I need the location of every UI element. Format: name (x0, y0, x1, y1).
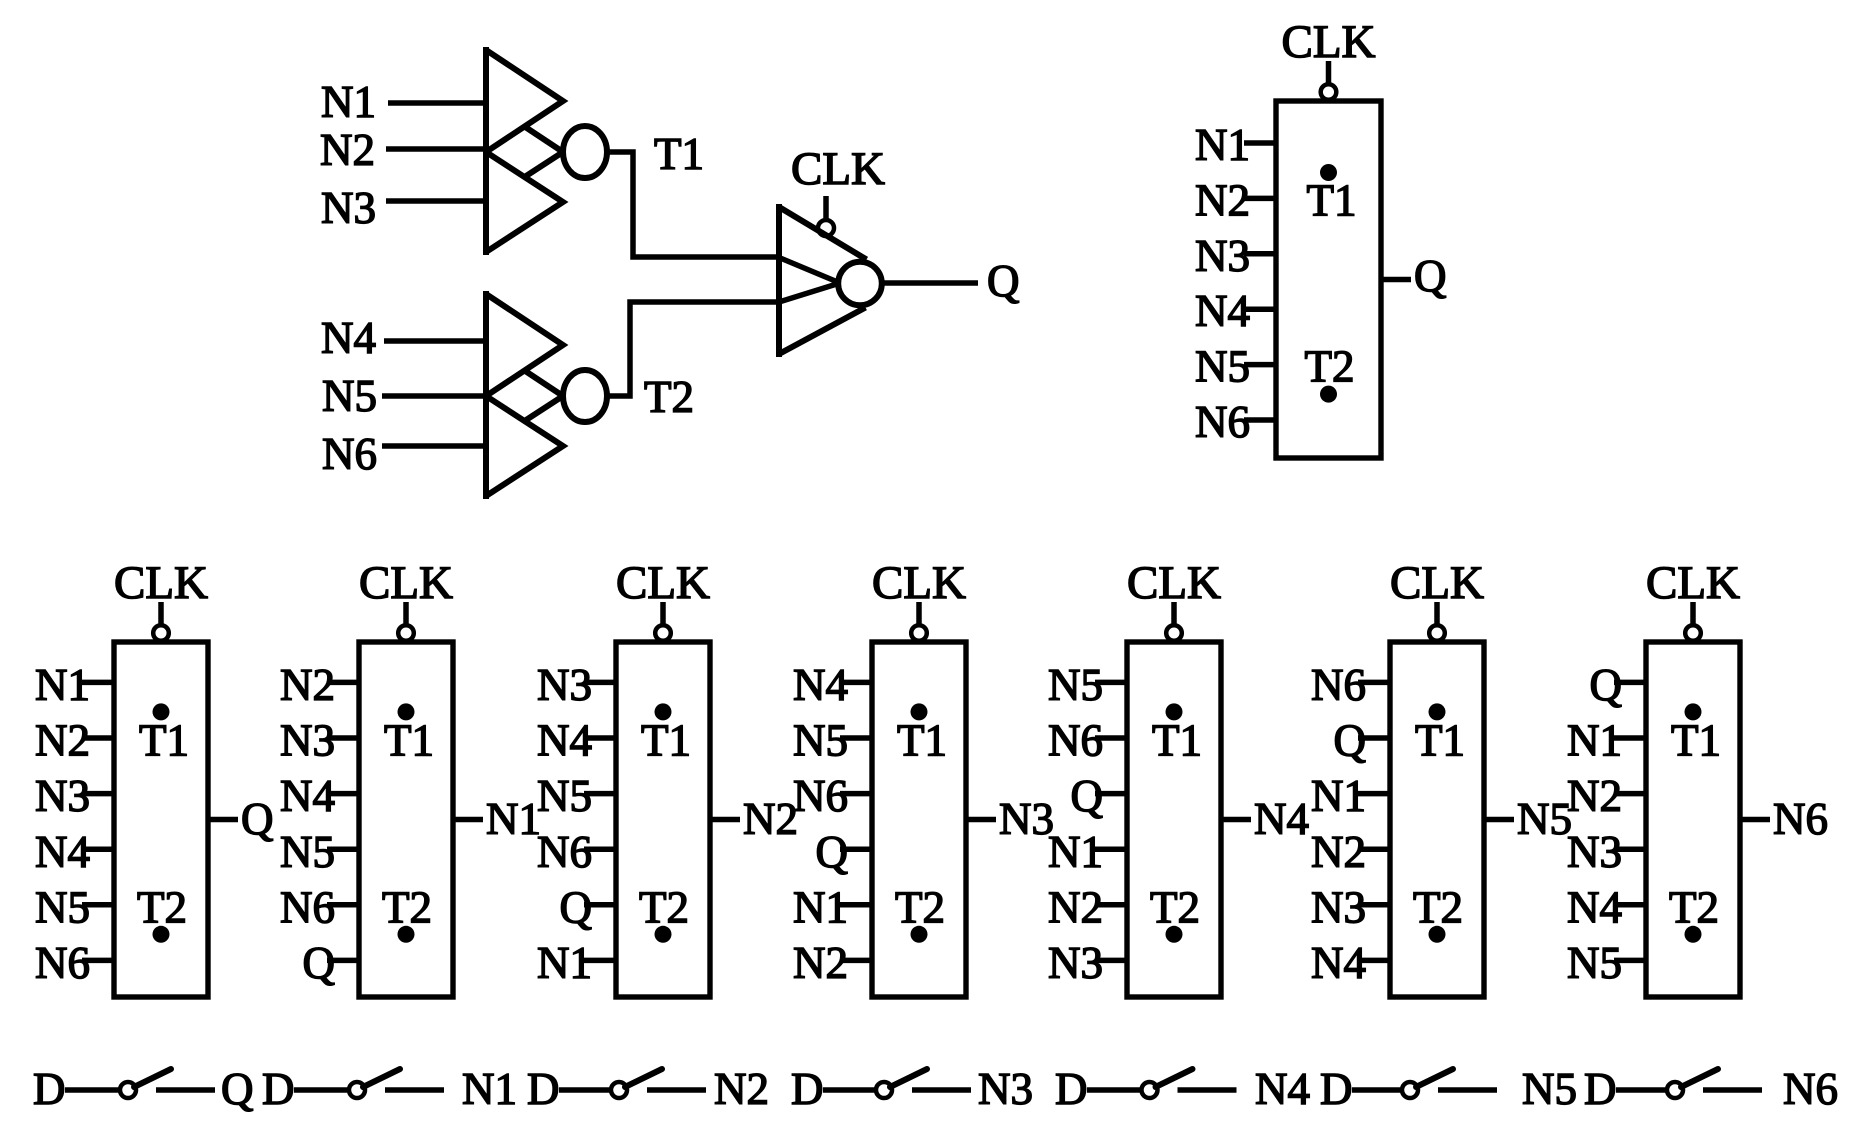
pin N1 of U4 (537, 938, 616, 988)
svg-text:T2: T2 (644, 372, 694, 422)
pin N4 of U3 (280, 771, 359, 821)
pin N2 of U8 (1567, 771, 1646, 821)
svg-text:T1: T1 (1671, 716, 1721, 766)
pin N6 of U6 (1048, 716, 1127, 766)
svg-text:N3: N3 (1195, 231, 1250, 281)
pin N1 of U1 (1195, 120, 1276, 170)
wire switch S7 to N6 (1703, 1087, 1762, 1093)
svg-text:CLK: CLK (1127, 557, 1221, 609)
label CLK (U7) (1390, 557, 1484, 609)
clock bubble U3 (818, 220, 834, 236)
label T1 (U4) (641, 716, 691, 766)
wire CLK stem U2 (158, 602, 164, 625)
label CLK (U8) (1646, 557, 1740, 609)
wire D to switch S2 (294, 1087, 349, 1093)
wire switch S1 to Q (156, 1087, 215, 1093)
label T1 (654, 129, 704, 179)
svg-text:N3: N3 (321, 183, 376, 233)
svg-text:T2: T2 (1305, 342, 1355, 392)
clock bubble U2 (153, 625, 169, 641)
wire D to switch S7 (1616, 1087, 1667, 1093)
svg-text:D: D (1584, 1064, 1617, 1114)
svg-text:N3: N3 (1048, 938, 1103, 988)
svg-text:N4: N4 (1254, 794, 1309, 844)
svg-text:N2: N2 (320, 125, 375, 175)
svg-text:D: D (1320, 1064, 1353, 1114)
block U7 body (1390, 642, 1484, 997)
block U1 body (1276, 101, 1381, 458)
svg-text:N1: N1 (321, 77, 376, 127)
label CLK (U6) (1127, 557, 1221, 609)
pin N1 of U7 (1311, 771, 1390, 821)
svg-text:N6: N6 (1783, 1064, 1838, 1114)
svg-text:D: D (527, 1064, 560, 1114)
pin N2 output of U4 (710, 794, 798, 844)
label CLK (U2) (114, 557, 208, 609)
svg-text:N5: N5 (793, 716, 848, 766)
svg-text:T1: T1 (139, 716, 189, 766)
svg-text:CLK: CLK (114, 557, 208, 609)
block U3 body (359, 642, 453, 997)
svg-text:N6: N6 (322, 429, 377, 479)
svg-text:D: D (33, 1064, 66, 1114)
svg-text:N4: N4 (537, 716, 592, 766)
label N6 (322, 429, 377, 479)
label N2 (switch S3 output) (714, 1064, 769, 1114)
svg-text:N5: N5 (322, 371, 377, 421)
node T2 dot (U4) (655, 926, 672, 943)
block U6 body (1127, 642, 1221, 997)
minority gate G1 (inputs N1,N2,N3) (486, 50, 607, 252)
svg-text:N1: N1 (462, 1064, 517, 1114)
clocked inverter U3 (T1,T2 -> Q) (779, 207, 882, 354)
pin N5 of U2 (35, 882, 114, 932)
pin N3 of U7 (1311, 882, 1390, 932)
svg-text:N2: N2 (793, 938, 848, 988)
label T2 (644, 372, 694, 422)
wire N1 input (388, 100, 486, 106)
pin Q of U5 (816, 827, 873, 877)
svg-text:N5: N5 (1567, 938, 1622, 988)
svg-text:T1: T1 (1415, 716, 1465, 766)
clock bubble U5 (911, 625, 927, 641)
label N2 (320, 125, 375, 175)
pin Q output of U2 (208, 794, 274, 844)
svg-text:T2: T2 (137, 882, 187, 932)
svg-text:CLK: CLK (1282, 16, 1376, 68)
svg-text:N3: N3 (1567, 827, 1622, 877)
svg-text:N4: N4 (793, 660, 848, 710)
pin N3 of U1 (1195, 231, 1276, 281)
svg-text:T2: T2 (1413, 882, 1463, 932)
node T1 dot (U2) (153, 703, 170, 720)
label CLK (U1) (1282, 16, 1376, 68)
wire CLK stem U3 (403, 602, 409, 625)
svg-text:N5: N5 (537, 771, 592, 821)
svg-text:N6: N6 (35, 938, 90, 988)
pin N4 of U1 (1195, 286, 1276, 336)
pin N3 of U6 (1048, 938, 1127, 988)
svg-text:D: D (1055, 1064, 1088, 1114)
node T2 dot (U3) (398, 926, 415, 943)
node T1 dot (U3) (398, 703, 415, 720)
clock bubble U7 (1429, 625, 1445, 641)
svg-text:N3: N3 (35, 771, 90, 821)
pin N3 of U2 (35, 771, 114, 821)
pin N5 of U5 (793, 716, 872, 766)
label T2 (U1) (1305, 342, 1355, 392)
svg-text:N4: N4 (1195, 286, 1250, 336)
svg-text:N2: N2 (1311, 827, 1366, 877)
pin N3 of U3 (280, 716, 359, 766)
pin N5 output of U7 (1484, 794, 1572, 844)
label D (switch S5) (1055, 1064, 1088, 1114)
wire D to switch S3 (559, 1087, 611, 1093)
wire N5 input (382, 393, 486, 399)
wire N6 input (382, 443, 486, 449)
svg-text:T2: T2 (895, 882, 945, 932)
svg-text:Q: Q (987, 256, 1020, 306)
svg-text:N1: N1 (1567, 716, 1622, 766)
pin N4 of U2 (35, 827, 114, 877)
pin Q of U7 (1334, 716, 1391, 766)
switch S3 (611, 1069, 662, 1098)
pin N5 of U6 (1048, 660, 1127, 710)
label N1 (switch S2 output) (462, 1064, 517, 1114)
pin N4 of U5 (793, 660, 872, 710)
label T2 (U3) (382, 882, 432, 932)
svg-text:T2: T2 (1669, 882, 1719, 932)
pin N6 of U5 (793, 771, 872, 821)
label T2 (U8) (1669, 882, 1719, 932)
svg-text:N5: N5 (1195, 342, 1250, 392)
clock bubble U1 (1321, 84, 1337, 100)
pin N1 of U5 (793, 882, 872, 932)
label Q output (987, 256, 1020, 306)
node T2 dot (U2) (153, 926, 170, 943)
switch S6 (1402, 1069, 1453, 1098)
clock bubble U3 (398, 625, 414, 641)
svg-text:N4: N4 (280, 771, 335, 821)
svg-text:N3: N3 (1311, 882, 1366, 932)
label CLK (U5) (872, 557, 966, 609)
svg-text:N5: N5 (1522, 1064, 1577, 1114)
switch S4 (876, 1069, 927, 1098)
svg-text:N3: N3 (280, 716, 335, 766)
svg-text:CLK: CLK (616, 557, 710, 609)
minority gate G2 (inputs N4,N5,N6) (486, 294, 607, 496)
svg-text:T2: T2 (382, 882, 432, 932)
pin N5 of U4 (537, 771, 616, 821)
label T1 (U3) (384, 716, 434, 766)
svg-text:N1: N1 (1195, 120, 1250, 170)
pin N2 of U2 (35, 716, 114, 766)
svg-text:N4: N4 (321, 313, 376, 363)
label N3 (321, 183, 376, 233)
wire CLK stem U7 (1434, 602, 1440, 625)
clock bubble U4 (655, 625, 671, 641)
block U4 body (616, 642, 710, 997)
svg-text:T1: T1 (641, 716, 691, 766)
node T2 dot (U1) (1320, 386, 1337, 403)
wire CLK stem U5 (916, 602, 922, 625)
label T1 (U7) (1415, 716, 1465, 766)
svg-text:T1: T1 (1152, 716, 1202, 766)
svg-text:N2: N2 (280, 660, 335, 710)
svg-text:CLK: CLK (1646, 557, 1740, 609)
block U2 body (114, 642, 208, 997)
label T2 (U6) (1150, 882, 1200, 932)
node T1 dot (U6) (1166, 703, 1183, 720)
wire switch S3 to N2 (647, 1087, 706, 1093)
label T2 (U5) (895, 882, 945, 932)
switch S7 (1667, 1069, 1718, 1098)
pin N6 output of U8 (1740, 794, 1828, 844)
wire T1 net (607, 152, 779, 257)
wire switch S6 to N5 (1438, 1087, 1497, 1093)
label T1 (U5) (897, 716, 947, 766)
wire switch S4 to N3 (912, 1087, 971, 1093)
svg-text:N3: N3 (537, 660, 592, 710)
wire switch S2 to N1 (385, 1087, 444, 1093)
label T1 (U2) (139, 716, 189, 766)
clock bubble U6 (1166, 625, 1182, 641)
block U8 body (1646, 642, 1740, 997)
pin N6 of U4 (537, 827, 616, 877)
pin N2 of U1 (1195, 175, 1276, 225)
wire N3 input (386, 198, 486, 204)
svg-text:N2: N2 (35, 716, 90, 766)
svg-text:T1: T1 (654, 129, 704, 179)
wire CLK stem U6 (1171, 602, 1177, 625)
label T2 (U4) (639, 882, 689, 932)
svg-text:CLK: CLK (872, 557, 966, 609)
label CLK (U4) (616, 557, 710, 609)
svg-text:N1: N1 (1311, 771, 1366, 821)
svg-text:CLK: CLK (359, 557, 453, 609)
wire CLK stem U4 (660, 602, 666, 625)
pin Q of U8 (1590, 660, 1647, 710)
svg-text:Q: Q (221, 1064, 254, 1114)
label T1 (U1) (1307, 175, 1357, 225)
label T1 (U8) (1671, 716, 1721, 766)
wire N4 input (384, 338, 486, 344)
svg-text:N2: N2 (1048, 882, 1103, 932)
label N1 (321, 77, 376, 127)
svg-text:N1: N1 (486, 794, 541, 844)
svg-text:N2: N2 (714, 1064, 769, 1114)
wire D to switch S4 (823, 1087, 876, 1093)
wire CLK stem U8 (1690, 602, 1696, 625)
svg-text:N6: N6 (1195, 397, 1250, 447)
clock bubble U8 (1685, 625, 1701, 641)
svg-text:T2: T2 (1150, 882, 1200, 932)
svg-text:N5: N5 (280, 827, 335, 877)
pin N1 output of U3 (453, 794, 541, 844)
pin N3 output of U5 (966, 794, 1054, 844)
wire N2 input (386, 146, 486, 152)
svg-text:Q: Q (1414, 251, 1447, 301)
label D (switch S4) (791, 1064, 824, 1114)
svg-text:N3: N3 (999, 794, 1054, 844)
wire Q output (882, 280, 978, 286)
pin Q of U6 (1071, 771, 1128, 821)
label D (switch S7) (1584, 1064, 1617, 1114)
pin N5 of U3 (280, 827, 359, 877)
svg-text:N2: N2 (1195, 175, 1250, 225)
svg-text:D: D (262, 1064, 295, 1114)
label D (switch S3) (527, 1064, 560, 1114)
pin N4 of U4 (537, 716, 616, 766)
pin Q of U3 (303, 938, 360, 988)
svg-text:CLK: CLK (1390, 557, 1484, 609)
pin N3 of U4 (537, 660, 616, 710)
label N6 (switch S7 output) (1783, 1064, 1838, 1114)
pin N3 of U8 (1567, 827, 1646, 877)
node T1 dot (U5) (911, 703, 928, 720)
label N4 (switch S5 output) (1255, 1064, 1310, 1114)
svg-text:N5: N5 (1048, 660, 1103, 710)
label N5 (322, 371, 377, 421)
node T2 dot (U8) (1685, 926, 1702, 943)
svg-text:N1: N1 (35, 660, 90, 710)
pin N1 of U6 (1048, 827, 1127, 877)
svg-text:N6: N6 (1311, 660, 1366, 710)
pin N2 of U3 (280, 660, 359, 710)
pin N4 of U8 (1567, 882, 1646, 932)
block U5 body (872, 642, 966, 997)
svg-text:N4: N4 (1255, 1064, 1310, 1114)
pin N2 of U6 (1048, 882, 1127, 932)
label N5 (switch S6 output) (1522, 1064, 1577, 1114)
svg-text:Q: Q (241, 794, 274, 844)
svg-text:N6: N6 (537, 827, 592, 877)
pin N1 of U8 (1567, 716, 1646, 766)
pin N6 of U1 (1195, 397, 1276, 447)
label N3 (switch S4 output) (978, 1064, 1033, 1114)
switch S5 (1142, 1069, 1193, 1098)
svg-text:N5: N5 (35, 882, 90, 932)
pin N4 output of U6 (1221, 794, 1309, 844)
node T2 dot (U7) (1429, 926, 1446, 943)
label T1 (U6) (1152, 716, 1202, 766)
wire D to switch S5 (1087, 1087, 1142, 1093)
svg-text:N6: N6 (1048, 716, 1103, 766)
switch S1 (120, 1069, 171, 1098)
svg-text:D: D (791, 1064, 824, 1114)
pin N5 of U1 (1195, 342, 1276, 392)
node T2 dot (U5) (911, 926, 928, 943)
svg-text:T2: T2 (639, 882, 689, 932)
label D (switch S6) (1320, 1064, 1353, 1114)
pin N6 of U3 (280, 882, 359, 932)
wire CLK stem U3 (823, 196, 829, 221)
svg-text:N4: N4 (1567, 882, 1622, 932)
pin Q of U4 (560, 882, 617, 932)
wire switch S5 to N4 (1178, 1087, 1237, 1093)
pin N4 of U7 (1311, 938, 1390, 988)
pin N5 of U8 (1567, 938, 1646, 988)
wire D to switch S1 (65, 1087, 120, 1093)
pin N6 of U2 (35, 938, 114, 988)
node T2 dot (U6) (1166, 926, 1183, 943)
node T1 dot (U4) (655, 703, 672, 720)
pin N6 of U7 (1311, 660, 1390, 710)
svg-text:N4: N4 (35, 827, 90, 877)
svg-text:N6: N6 (280, 882, 335, 932)
svg-text:N6: N6 (793, 771, 848, 821)
label CLK (inverter U3) (791, 143, 885, 195)
node T1 dot (U7) (1429, 703, 1446, 720)
svg-text:T1: T1 (1307, 175, 1357, 225)
node T1 dot (U1) (1320, 164, 1337, 181)
svg-text:N4: N4 (1311, 938, 1366, 988)
svg-text:T1: T1 (897, 716, 947, 766)
pin N1 of U2 (35, 660, 114, 710)
label CLK (U3) (359, 557, 453, 609)
label N4 (321, 313, 376, 363)
switch S2 (349, 1069, 400, 1098)
label T2 (U2) (137, 882, 187, 932)
svg-text:N5: N5 (1517, 794, 1572, 844)
svg-text:T1: T1 (384, 716, 434, 766)
svg-text:N2: N2 (743, 794, 798, 844)
svg-text:N1: N1 (1048, 827, 1103, 877)
svg-text:N2: N2 (1567, 771, 1622, 821)
wire CLK stem U1 (1326, 61, 1332, 84)
wire T2 net (607, 302, 779, 396)
svg-text:N3: N3 (978, 1064, 1033, 1114)
label D (switch S2) (262, 1064, 295, 1114)
wire D to switch S6 (1352, 1087, 1402, 1093)
svg-text:N1: N1 (537, 938, 592, 988)
svg-text:N6: N6 (1773, 794, 1828, 844)
pin N2 of U7 (1311, 827, 1390, 877)
pin N2 of U5 (793, 938, 872, 988)
svg-text:CLK: CLK (791, 143, 885, 195)
node T1 dot (U8) (1685, 703, 1702, 720)
svg-text:N1: N1 (793, 882, 848, 932)
label D (switch S1) (33, 1064, 66, 1114)
label Q (switch S1 output) (221, 1064, 254, 1114)
label T2 (U7) (1413, 882, 1463, 932)
pin Q output of U1 (1381, 251, 1447, 301)
